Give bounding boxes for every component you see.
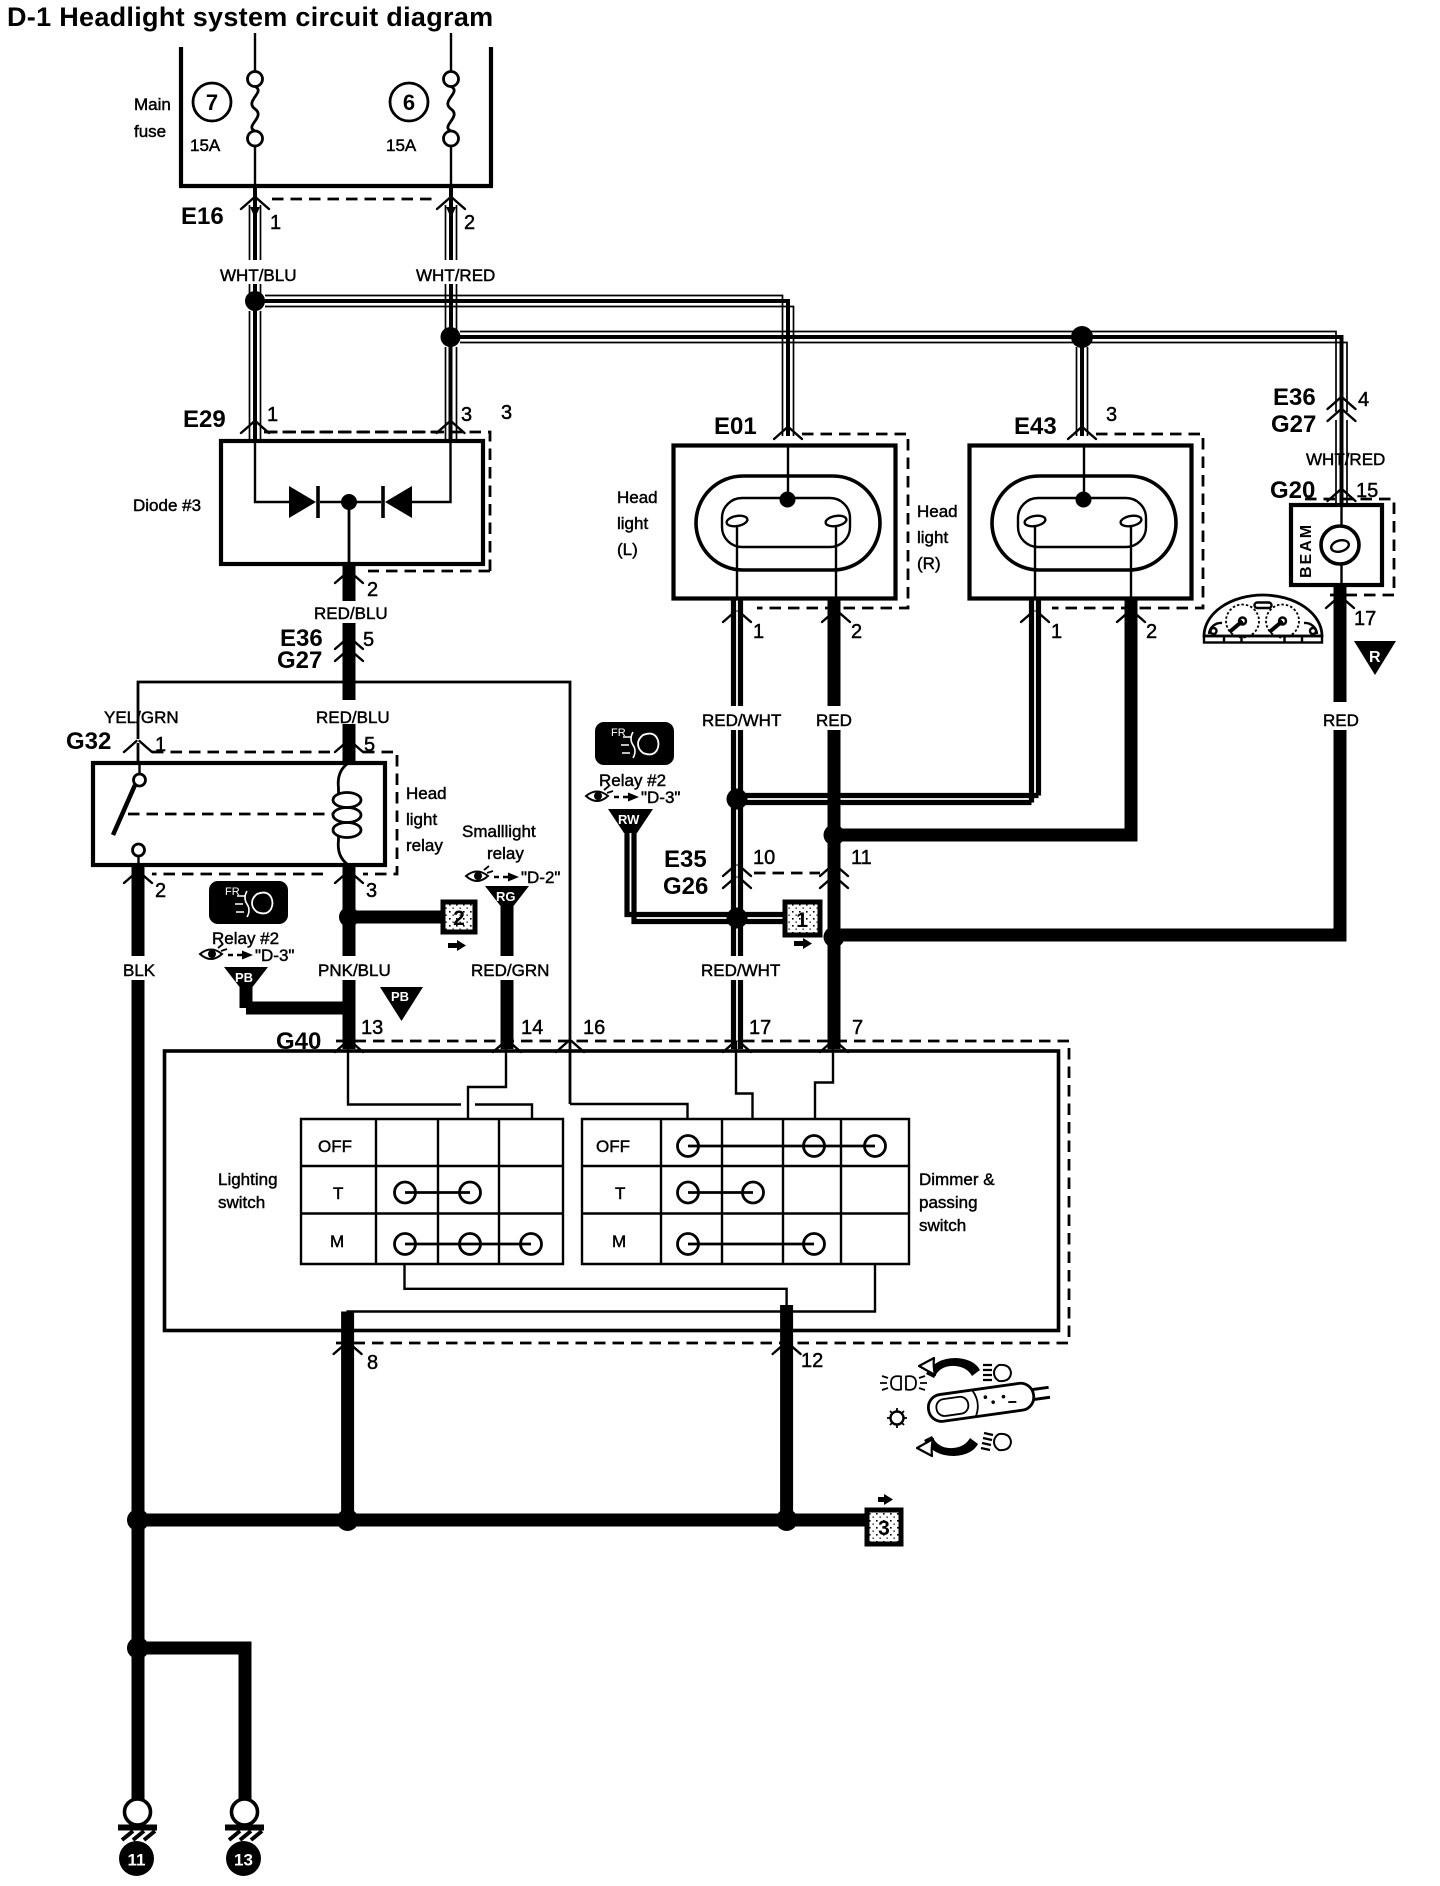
wire WHT/RED vertical fuse6 to junction [446,186,457,337]
junction PNK/BLU tee [339,907,359,927]
svg-text:15A: 15A [386,136,417,155]
svg-text:2: 2 [851,621,862,643]
dashed relay connector link [152,751,337,754]
wire RED/GRN funnel down [501,906,514,1049]
switch assembly box [165,1051,1059,1331]
svg-text:Dimmer &: Dimmer & [919,1170,995,1189]
svg-text:RED/BLU: RED/BLU [314,604,388,623]
svg-text:PB: PB [235,970,253,985]
wire pin 12 down [780,1305,793,1520]
connector relay pin 2 [124,872,152,883]
connector G40 pin 17 [723,1041,751,1052]
wire RED/BLU diode to relay [343,564,356,763]
svg-text:G32: G32 [66,728,111,755]
headlight relay box [93,763,385,865]
svg-text:Head: Head [617,488,658,507]
dimmer switch table [582,1119,909,1264]
headlight E01 [674,413,909,608]
svg-text:3: 3 [366,880,377,902]
relay switch [138,763,140,774]
junction WHT/RED [441,327,461,347]
svg-text:light: light [917,528,948,547]
junction RED/WHT relay feed [727,908,748,929]
wire RED E01 pin2 down [828,598,841,1049]
svg-text:Head: Head [917,502,958,521]
contacts M row [405,1243,531,1246]
svg-text:5: 5 [363,629,374,651]
svg-text:17: 17 [1354,608,1376,630]
connector E29 pin 3 [437,422,465,433]
svg-text:OFF: OFF [318,1137,352,1156]
connector G40 pin 8 [334,1343,362,1354]
wire run to E43 pin1 [737,598,1039,803]
svg-text:passing: passing [919,1193,978,1212]
svg-text:Diode #3: Diode #3 [133,496,201,515]
wire pin 8 down [341,1312,354,1521]
svg-text:3: 3 [1106,404,1117,426]
relay coil [338,763,348,793]
svg-text:BLK: BLK [123,961,156,980]
svg-text:E16: E16 [181,203,224,230]
svg-text:RED/BLU: RED/BLU [316,708,390,727]
filament legs [737,526,836,598]
svg-text:7: 7 [852,1017,863,1039]
svg-text:3: 3 [461,404,472,426]
option box 3 [867,1494,901,1544]
svg-text:RED/WHT: RED/WHT [701,961,780,980]
dashed link 10-11 [754,872,820,875]
junction feed E43 [1071,326,1093,348]
svg-text:RED/GRN: RED/GRN [471,961,549,980]
dashed box diode [266,432,490,571]
dashed box G40 [336,1041,1069,1343]
svg-text:12: 12 [801,1350,823,1372]
diode #3 box [221,441,483,564]
svg-text:RED/WHT: RED/WHT [702,711,781,730]
svg-text:11: 11 [851,847,872,869]
svg-text:G27: G27 [1271,411,1316,438]
eye icon [466,866,493,881]
svg-text:1: 1 [267,404,278,426]
wire WHT/RED right column down [1336,412,1347,505]
svg-text:13: 13 [361,1017,383,1039]
wire relay pin3 to option box 2 [349,911,441,924]
svg-text:"D-2": "D-2" [521,868,560,887]
svg-text:1: 1 [796,909,808,932]
low beam symbol [981,1433,1011,1450]
junction pin12 bottom [776,1509,798,1531]
junction diode common [341,494,357,510]
connector E16 pin 1 [241,198,269,209]
wire pin13 to lighting col4 [348,1049,532,1119]
svg-text:WHT/BLU: WHT/BLU [220,266,297,285]
svg-text:10: 10 [753,847,775,869]
svg-text:"D-3": "D-3" [255,946,294,965]
svg-text:15A: 15A [190,136,221,155]
connector E35 G26 pin 11 [820,865,848,888]
svg-text:8: 8 [367,1352,378,1374]
eye icon [200,944,227,959]
svg-text:3: 3 [878,1517,890,1540]
connector G40 pin 7 [820,1041,848,1052]
svg-text:YEL/GRN: YEL/GRN [104,708,179,727]
relay dashed actuate line [128,813,334,816]
BEAM indicator box [1291,505,1382,585]
dashed arrow to D-3 [228,954,242,956]
stalk switch icon [880,1358,1051,1456]
junction RED/WHT to E43 pin1 [727,789,748,810]
beam lamp [1340,505,1342,527]
wire run to E43 pin2 [834,598,1131,835]
diode D2 [385,486,412,518]
filament L [726,514,748,527]
svg-text:Lighting: Lighting [218,1170,278,1189]
feed line and node [787,445,789,499]
junction RED to beam run [824,927,845,948]
wire junction to option box 1 [737,915,787,922]
svg-text:fuse: fuse [134,122,166,141]
connector G32 pin 5 mark [335,741,363,752]
stalk body [927,1379,1052,1423]
connector E29 pin 2 (diode output) [335,572,363,583]
connector G40 pin 14 [493,1041,521,1052]
svg-text:WHT/RED: WHT/RED [416,266,495,285]
svg-text:1: 1 [1051,621,1062,643]
svg-text:2: 2 [367,579,378,601]
wire BLK down to grounds [132,1520,145,1799]
contacts M row [688,1243,814,1246]
wire pin7 to dimmer col4 [815,1041,833,1119]
contacts T row [688,1191,753,1194]
svg-text:(R): (R) [917,554,941,573]
destination triangle R [1354,641,1396,675]
main fuse box [179,47,493,186]
relay #2 icon (FR fog lamp) left [209,881,288,924]
svg-text:"D-3": "D-3" [641,788,680,807]
svg-text:OFF: OFF [596,1137,630,1156]
wire branch to ground 13 [138,1648,245,1799]
svg-text:G26: G26 [663,873,708,900]
connector E43 pin 2 [1117,611,1145,622]
connector E01 pin 2 [822,611,850,622]
svg-text:3: 3 [501,402,512,424]
connector E43 pin 3 [1068,428,1096,439]
wire RW down and to junction [627,833,737,922]
gauge cluster icon [1204,595,1322,643]
svg-text:PNK/BLU: PNK/BLU [318,961,391,980]
wire run RED junction to beam drop [834,929,1340,942]
wire pin14 to lighting col3 [468,1041,506,1119]
wire pin17 to dimmer col3 [736,1041,753,1119]
junction WHT/BLU [245,291,265,311]
svg-text:1: 1 [753,621,764,643]
funnel PB [224,967,268,987]
wire run WHT/BLU to E01 drop [255,296,794,437]
option box 2 [443,902,475,951]
wire lighting M to pin 12 [405,1264,787,1310]
connector E16 pin 2 [437,198,465,209]
svg-text:13: 13 [234,1851,253,1870]
svg-text:E29: E29 [183,406,226,433]
svg-text:17: 17 [749,1017,771,1039]
connector E01 pin 3 [774,428,802,439]
svg-text:Head: Head [406,784,447,803]
svg-text:relay: relay [406,836,443,855]
dashed link E29 [264,431,441,434]
svg-text:light: light [406,810,437,829]
svg-text:M: M [330,1232,344,1251]
node YEL/GRN rail [138,682,570,1104]
svg-text:16: 16 [583,1017,605,1039]
contacts T row [405,1191,470,1194]
diode D1 [289,486,316,518]
svg-text:2: 2 [453,907,465,930]
upper rotate arrow [926,1358,980,1378]
lower rotate arrow [924,1436,978,1456]
svg-text:switch: switch [218,1193,265,1212]
svg-text:light: light [617,514,648,533]
bulb outline [696,476,880,570]
svg-text:D-1 Headlight system circuit d: D-1 Headlight system circuit diagram [7,2,493,32]
svg-text:Main: Main [134,95,171,114]
connector G20 pin 17 [1326,597,1354,608]
svg-text:G27: G27 [277,647,322,674]
svg-text:11: 11 [128,1851,146,1870]
svg-text:E35: E35 [664,846,707,873]
diode internal wiring [255,441,451,502]
svg-text:(L): (L) [617,540,638,559]
dashed arrow to D-2 [494,876,508,878]
junction ground tee [127,1637,149,1659]
connector G40 pin 12 [773,1343,801,1354]
junction pin8 bottom [337,1509,359,1531]
svg-text:2: 2 [1146,621,1157,643]
wire dimmer col5 to pin 8 [348,1264,875,1320]
connector G40 pin 13 [335,1041,363,1052]
connector E43 pin 1 [1021,611,1049,622]
ground 13 [225,1799,264,1876]
wire WHT/BLU vertical fuse7 to junction [250,186,261,301]
wire PB funnel to PNK/BLU [246,987,349,1008]
ground 11 [118,1799,157,1876]
svg-text:2: 2 [464,212,475,234]
wire drop to E43 [1077,337,1088,436]
junction BLK bottom corner [127,1509,149,1531]
lighting switch table [301,1119,563,1264]
svg-text:BEAM: BEAM [1298,523,1315,578]
connector G40 pin 16 [556,1041,584,1052]
funnel PB marker [380,987,423,1021]
fuse 6 (15A) [386,33,459,186]
svg-text:6: 6 [403,90,415,115]
funnel RG [485,886,529,906]
connector E01 pin 1 [723,611,751,622]
svg-text:E01: E01 [714,413,757,440]
svg-text:M: M [612,1232,626,1251]
wire WHT/RED down to E29 pin 3 [446,337,457,441]
bulb inner [722,498,850,547]
headlight E43 [970,404,1204,608]
svg-text:RED: RED [1323,711,1359,730]
junction RED to E43 pin2 [824,825,845,846]
eye icon [586,786,613,801]
connector relay pin 3 [335,872,363,883]
connector E29 pin 1 [241,422,269,433]
dashed arrow to D-3 [614,796,628,798]
wire PNK/BLU relay pin3 down [343,865,356,1049]
svg-text:switch: switch [919,1216,966,1235]
svg-text:2: 2 [155,880,166,902]
filament R [825,514,847,527]
wire diode common down [348,502,351,564]
svg-text:7: 7 [206,90,218,115]
wire pin16 to dimmer col2 [570,1104,688,1119]
svg-text:relay: relay [487,844,524,863]
svg-text:T: T [615,1184,625,1203]
svg-text:PB: PB [391,989,409,1004]
high beam symbol [983,1365,1011,1381]
svg-text:Smalllight: Smalllight [462,822,536,841]
contacts OFF row [688,1145,875,1148]
svg-text:RW: RW [618,812,640,827]
wire RED from beam [1334,585,1347,702]
svg-text:E36: E36 [1273,384,1316,411]
wire RED/WHT E01 pin1 down [734,598,741,1049]
flash symbol [880,1376,927,1390]
funnel RW [608,809,653,833]
option box 1 [785,902,820,949]
svg-text:RG: RG [496,889,516,904]
svg-text:4: 4 [1358,389,1369,411]
relay #2 icon (FR fog lamp) right [595,722,674,765]
svg-text:WHT/RED: WHT/RED [1306,450,1385,469]
fuse 7 (15A) [190,33,263,186]
wire WHT/BLU down to E29 pin 1 [250,301,261,441]
svg-text:E43: E43 [1014,413,1057,440]
wire G32 to relay [137,743,140,763]
dashed box G20 [1305,499,1394,595]
wire BLK relay pin2 down [132,865,145,1520]
dashed box relay [152,752,397,874]
wire ground bus [138,1514,866,1527]
svg-text:14: 14 [521,1017,543,1039]
svg-text:RED: RED [816,711,852,730]
wire run WHT/RED to top-right corner drop [451,332,1348,413]
svg-text:R: R [1369,649,1381,666]
sun symbol [891,1412,904,1425]
svg-text:T: T [333,1184,343,1203]
svg-text:1: 1 [270,212,281,234]
